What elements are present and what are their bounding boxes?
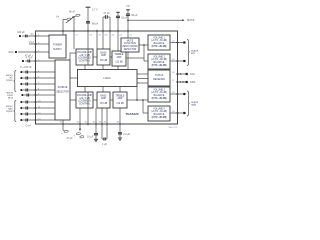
svg-text:VOLUME AMP: VOLUME AMP: [77, 51, 93, 54]
svg-text:CONTROL: CONTROL: [79, 60, 91, 62]
svg-text:(+6 TO −66 dB): (+6 TO −66 dB): [151, 92, 167, 94]
svg-text:VOLUME 2: VOLUME 2: [153, 56, 165, 58]
svg-text:GND: GND: [8, 51, 14, 54]
svg-text:±12 dB: ±12 dB: [115, 62, 123, 64]
svg-text:V ref: V ref: [29, 41, 34, 44]
svg-text:CONTROL: CONTROL: [79, 103, 91, 105]
svg-text:2.2 µF: 2.2 µF: [123, 133, 130, 136]
svg-text:AMP: AMP: [101, 97, 106, 100]
svg-text:VOLUME AMP: VOLUME AMP: [77, 94, 93, 97]
svg-text:68 µF: 68 µF: [92, 22, 99, 25]
svg-text:4.7 µF: 4.7 µF: [26, 57, 33, 60]
svg-text:BASS: BASS: [100, 94, 107, 97]
svg-text:68 µF: 68 µF: [131, 14, 138, 17]
svg-text:47 µF: 47 µF: [66, 137, 73, 140]
svg-text:ZERO CROSS: ZERO CROSS: [122, 46, 138, 48]
svg-text:MUTE: MUTE: [187, 18, 195, 22]
svg-text:right: right: [191, 103, 196, 107]
svg-text:TREBLE: TREBLE: [115, 54, 124, 56]
svg-text:SCL: SCL: [190, 72, 196, 76]
svg-text:+20 / 0 dB: +20 / 0 dB: [79, 98, 90, 100]
svg-text:±12 dB: ±12 dB: [116, 103, 124, 105]
svg-text:C ref: C ref: [26, 125, 31, 128]
svg-text:±15 dB: ±15 dB: [100, 60, 108, 62]
svg-text:(0 TO −30 dB): (0 TO −30 dB): [152, 98, 167, 100]
svg-text:AMP: AMP: [117, 56, 122, 59]
svg-text:SDA: SDA: [190, 80, 196, 84]
svg-text:input: input: [8, 97, 14, 100]
svg-text:68 nF: 68 nF: [69, 11, 76, 14]
svg-text:10 µF: 10 µF: [87, 136, 94, 139]
svg-text:(+6 TO −66 dB): (+6 TO −66 dB): [151, 40, 167, 42]
svg-text:TREBLE: TREBLE: [116, 95, 125, 97]
svg-text:(0 TO −30 dB): (0 TO −30 dB): [152, 46, 167, 48]
svg-text:LOGIC: LOGIC: [103, 78, 110, 80]
svg-text:±15 dB: ±15 dB: [100, 103, 108, 105]
svg-text:1 µF: 1 µF: [102, 143, 107, 146]
svg-text:(+6 TO −66 dB): (+6 TO −66 dB): [151, 59, 167, 61]
svg-text:left: left: [191, 51, 195, 55]
svg-text:BALANCE: BALANCE: [154, 61, 165, 64]
svg-text:VOLUME 4: VOLUME 4: [153, 108, 165, 110]
svg-text:MGL123: MGL123: [169, 127, 178, 129]
svg-text:SOURCE: SOURCE: [58, 87, 68, 89]
svg-text:VOLUME 3: VOLUME 3: [153, 89, 165, 91]
svg-text:TEA6320: TEA6320: [125, 112, 138, 116]
svg-text:SUPPLY: SUPPLY: [53, 49, 62, 51]
svg-text:BALANCE: BALANCE: [154, 113, 165, 116]
svg-text:DETECTOR: DETECTOR: [124, 49, 137, 51]
svg-text:AMP: AMP: [101, 54, 106, 57]
svg-text:47 µF: 47 µF: [103, 12, 110, 15]
svg-text:inputs: inputs: [6, 79, 13, 82]
svg-text:AMP: AMP: [118, 97, 123, 100]
svg-text:100 µF: 100 µF: [17, 31, 25, 34]
svg-text:(+6 TO −66 dB): (+6 TO −66 dB): [151, 111, 167, 113]
svg-text:I²C-BUS: I²C-BUS: [155, 74, 164, 77]
svg-text:V P: V P: [126, 5, 130, 8]
svg-text:FUNCTION: FUNCTION: [124, 43, 136, 45]
svg-text:10 µF: 10 µF: [121, 16, 128, 19]
svg-text:SELECTOR: SELECTOR: [56, 92, 69, 94]
svg-text:+20 / 0 dB: +20 / 0 dB: [79, 55, 90, 57]
svg-text:(0 TO −30 dB): (0 TO −30 dB): [152, 117, 167, 119]
svg-text:LOUDNESS: LOUDNESS: [78, 58, 91, 60]
svg-text:VOLUME 1: VOLUME 1: [153, 37, 165, 39]
svg-text:BASS: BASS: [100, 51, 107, 54]
svg-text:BALANCE: BALANCE: [154, 42, 165, 45]
svg-text:LOUDNESS: LOUDNESS: [78, 101, 91, 103]
svg-text:8 × 220 nF: 8 × 220 nF: [20, 66, 32, 69]
svg-text:BALANCE: BALANCE: [154, 94, 165, 97]
svg-text:2.7 V: 2.7 V: [92, 8, 98, 11]
svg-text:inputs: inputs: [6, 110, 13, 113]
svg-text:POWER: POWER: [53, 44, 62, 46]
svg-text:MUTE: MUTE: [127, 40, 134, 42]
svg-text:(0 TO −30 dB): (0 TO −30 dB): [152, 65, 167, 67]
svg-text:RECEIVER: RECEIVER: [153, 79, 165, 81]
